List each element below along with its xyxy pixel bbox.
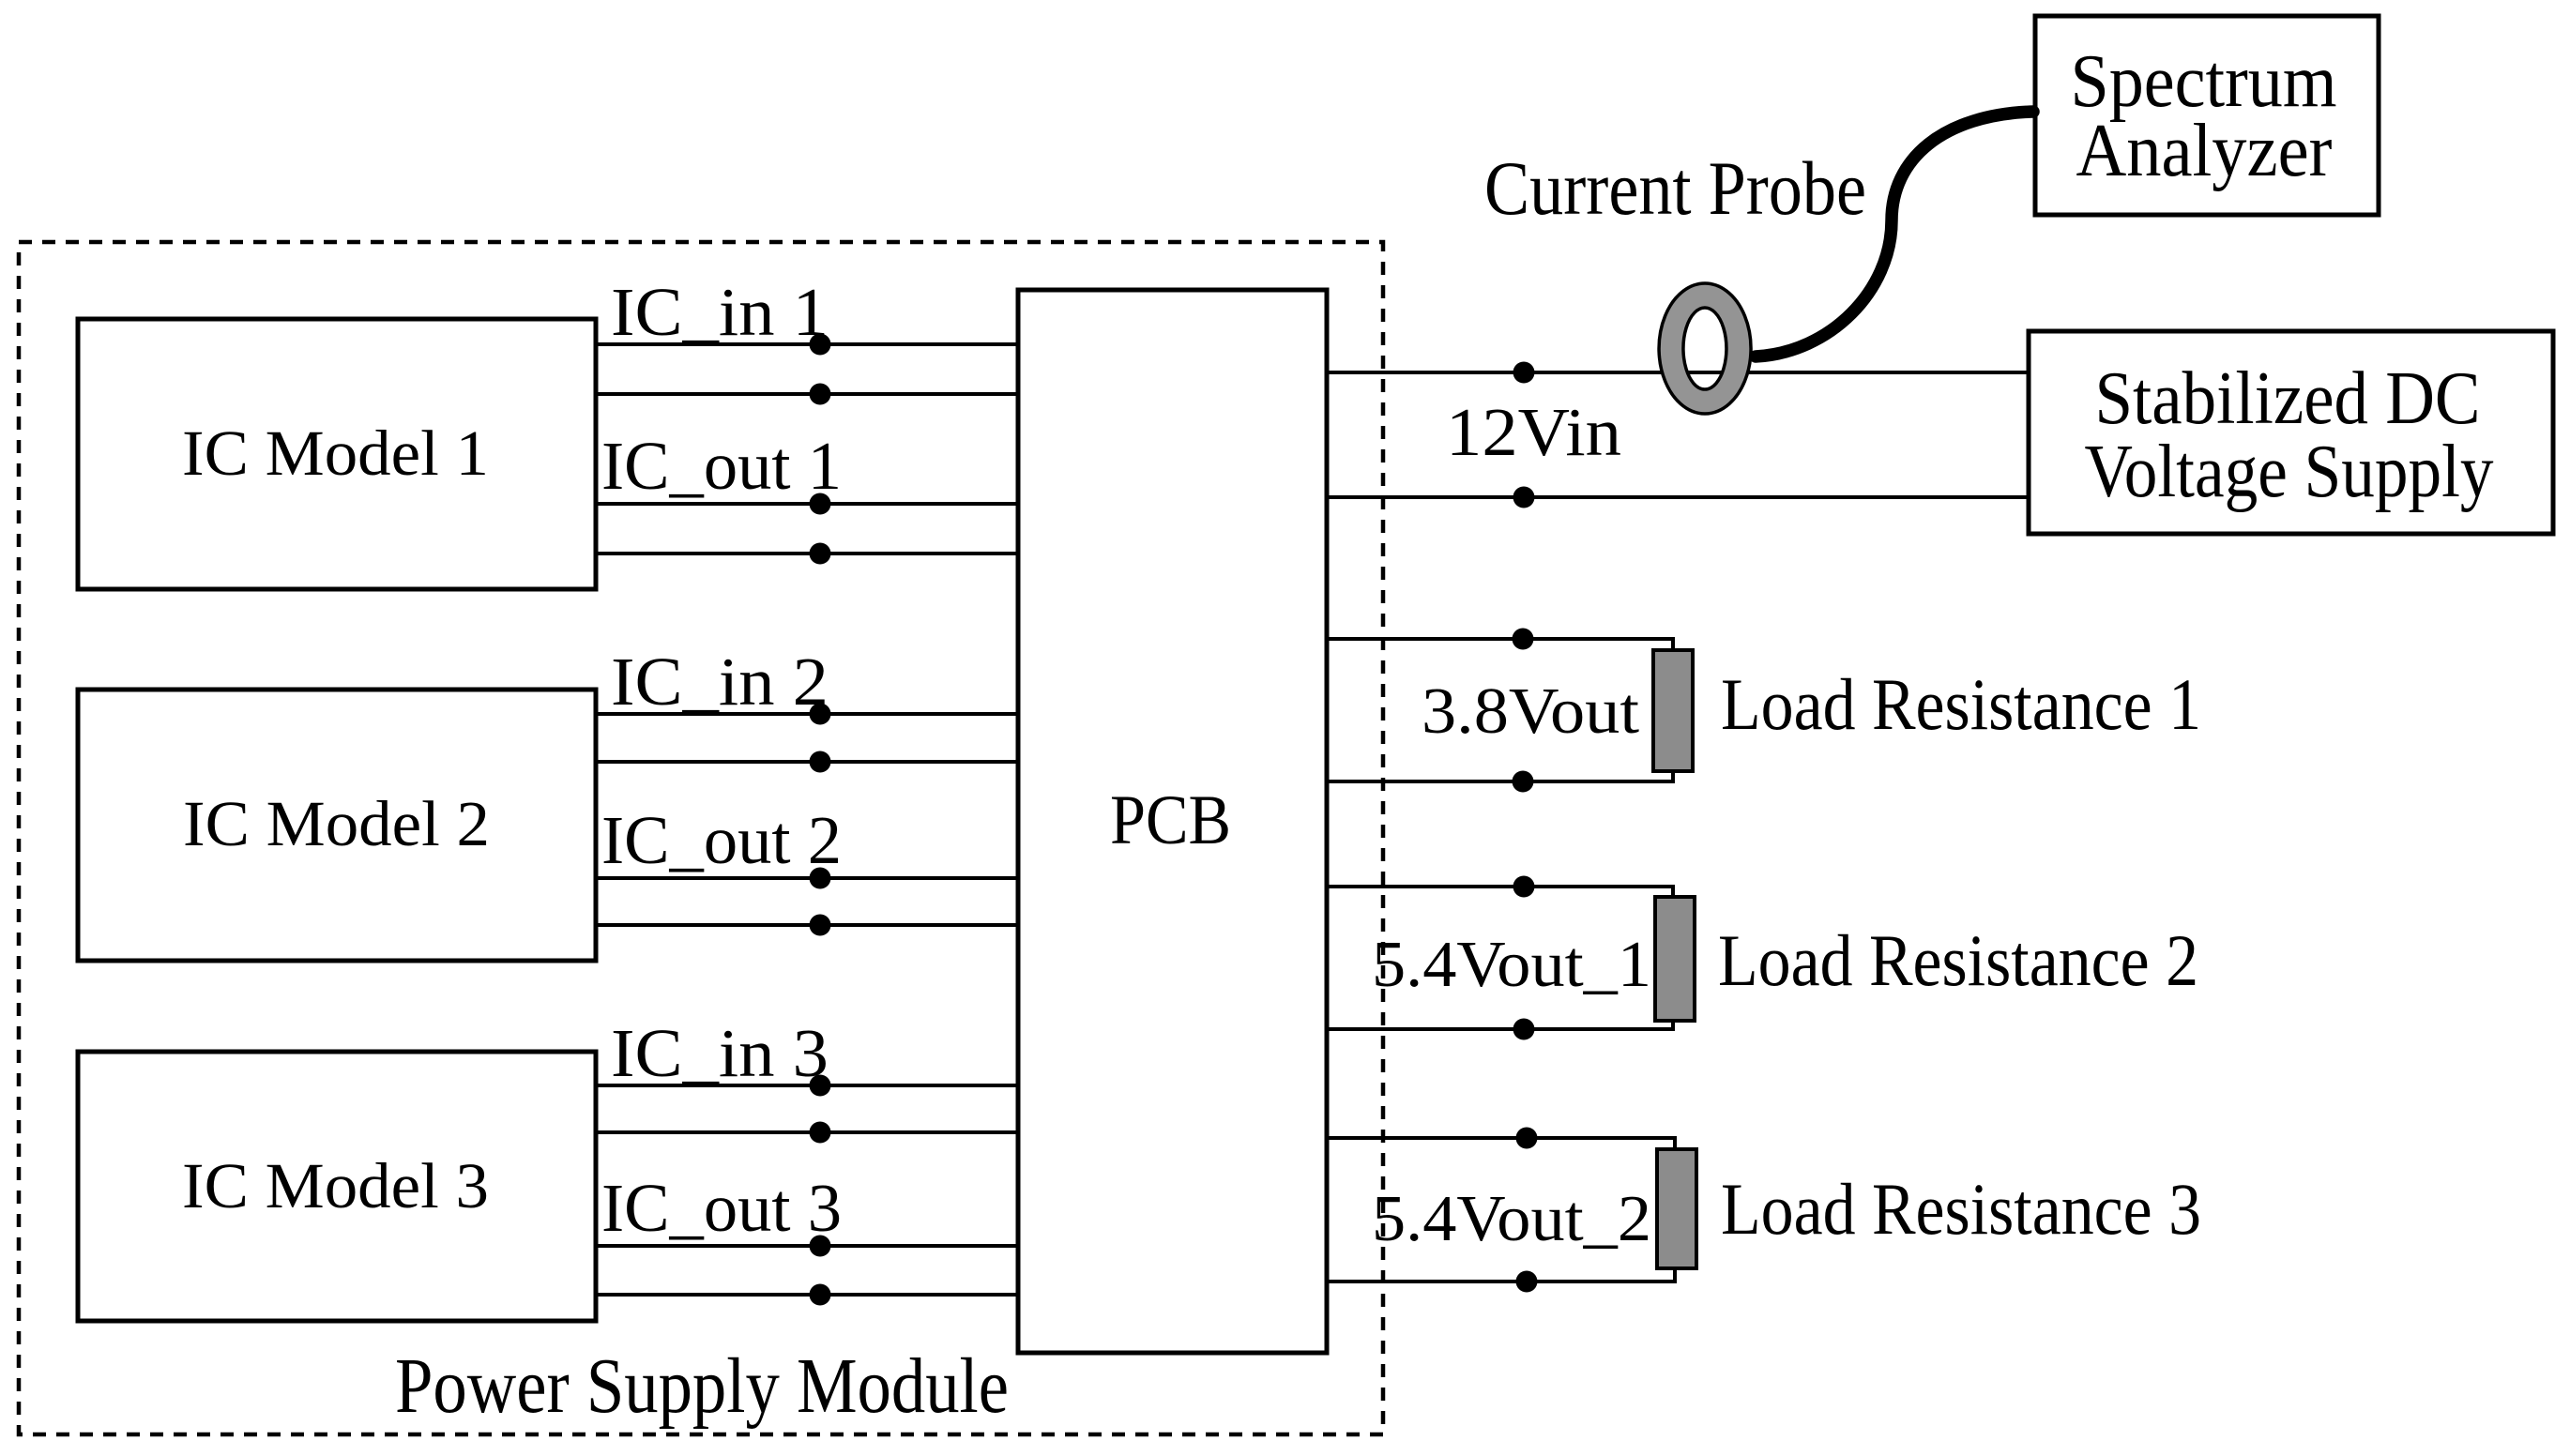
junction dot on 5.4Vout_1 bottom: [1513, 1019, 1535, 1040]
junction dot on wire IC3-PCB 3: [810, 1236, 831, 1257]
block: IC Model 3: [78, 1052, 596, 1321]
svg-text:Load Resistance 1: Load Resistance 1: [1721, 663, 2201, 745]
svg-text:IC Model 1: IC Model 1: [182, 417, 489, 489]
resistor: Load Resistance 3: [1657, 1149, 1696, 1268]
net label: IC_out 2: [601, 802, 842, 878]
wire IC2-PCB 1: [596, 712, 1020, 716]
wire IC1-PCB 2: [596, 392, 1020, 396]
svg-text:3.8Vout: 3.8Vout: [1422, 675, 1640, 748]
junction dot on wire IC2-PCB 1: [810, 704, 831, 725]
label: Load Resistance 1: [1721, 663, 2201, 745]
svg-text:Load Resistance 3: Load Resistance 3: [1721, 1168, 2201, 1250]
junction dot on wire IC2-PCB 3: [810, 868, 831, 889]
label: Power Supply Module: [395, 1342, 1009, 1430]
wire IC3-PCB 1: [596, 1084, 1020, 1087]
junction dot on wire IC3-PCB 2: [810, 1122, 831, 1144]
junction dot on wire IC1-PCB 4: [810, 543, 831, 565]
svg-text:12Vin: 12Vin: [1446, 394, 1621, 470]
block: Spectrum Analyzer: [2035, 16, 2379, 215]
svg-text:IC_out 1: IC_out 1: [601, 428, 842, 504]
net label: 3.8Vout: [1422, 675, 1640, 748]
wire IC3-PCB 4: [596, 1293, 1020, 1297]
wire 12Vin return (PCB to DC supply): [1325, 495, 2030, 499]
net label: IC_out 3: [601, 1170, 842, 1246]
wire 5.4Vout_2 bottom (load 3 to PCB): [1325, 1266, 1675, 1282]
junction dot on 5.4Vout_2 bottom: [1516, 1271, 1538, 1293]
svg-text:5.4Vout_1: 5.4Vout_1: [1372, 929, 1651, 1001]
wire IC2-PCB 2: [596, 760, 1020, 764]
resistor: Load Resistance 1: [1653, 650, 1693, 771]
junction dot on 3.8Vout bottom: [1513, 771, 1534, 793]
resistor: Load Resistance 2: [1655, 897, 1695, 1021]
net label: IC_in 3: [611, 1015, 829, 1091]
junction dot on wire IC2-PCB 2: [810, 751, 831, 773]
label: Load Resistance 2: [1718, 919, 2198, 1001]
net label: 5.4Vout_1: [1372, 929, 1651, 1001]
wire IC3-PCB 3: [596, 1244, 1020, 1248]
svg-text:IC_in 2: IC_in 2: [611, 644, 829, 720]
net label: IC_out 1: [601, 428, 842, 504]
wire 3.8Vout top (PCB to load 1): [1325, 639, 1673, 652]
net label: IC_in 1: [611, 274, 829, 350]
block: PCB: [1018, 290, 1327, 1353]
svg-text:IC_out 3: IC_out 3: [601, 1170, 842, 1246]
label: Current Probe: [1484, 145, 1866, 231]
wire 3.8Vout bottom (load 1 to PCB): [1325, 769, 1673, 781]
svg-text:IC_out 2: IC_out 2: [601, 802, 842, 878]
junction dot on wire IC1-PCB 3: [810, 493, 831, 515]
junction dot on 12Vin return: [1513, 487, 1535, 508]
wire IC1-PCB 4: [596, 552, 1020, 555]
probe cable to spectrum analyzer: [1756, 112, 2033, 356]
block: IC Model 1: [78, 319, 596, 589]
junction dot on wire IC3-PCB 1: [810, 1075, 831, 1097]
svg-text:IC_in 1: IC_in 1: [611, 274, 829, 350]
junction dot on 3.8Vout top: [1513, 629, 1534, 650]
junction dot on wire IC3-PCB 4: [810, 1284, 831, 1306]
current probe toroid: [1659, 283, 1751, 414]
junction dot on wire IC2-PCB 4: [810, 915, 831, 936]
block: IC Model 2: [78, 690, 596, 961]
svg-text:PCB: PCB: [1110, 781, 1231, 859]
wire IC3-PCB 2: [596, 1130, 1020, 1134]
wire IC2-PCB 4: [596, 923, 1020, 927]
svg-text:IC_in 3: IC_in 3: [611, 1015, 829, 1091]
wire 5.4Vout_1 top (PCB to load 2): [1325, 887, 1673, 899]
svg-text:Voltage Supply: Voltage Supply: [2085, 431, 2494, 513]
svg-text:5.4Vout_2: 5.4Vout_2: [1372, 1183, 1651, 1255]
svg-text:IC Model 2: IC Model 2: [183, 788, 490, 859]
wire 5.4Vout_1 bottom (load 2 to PCB): [1325, 1019, 1673, 1029]
junction dot on wire IC1-PCB 2: [810, 384, 831, 405]
label: Load Resistance 3: [1721, 1168, 2201, 1250]
svg-text:Stabilized DC: Stabilized DC: [2095, 357, 2481, 440]
junction dot on wire IC1-PCB 1: [810, 334, 831, 356]
wire IC1-PCB 1: [596, 342, 1020, 346]
svg-text:Analyzer: Analyzer: [2076, 110, 2333, 192]
junction dot on 5.4Vout_1 top: [1513, 876, 1535, 898]
enclosure: Power Supply Module dashed border: [19, 242, 1383, 1434]
wire IC1-PCB 3: [596, 502, 1020, 506]
wire IC2-PCB 3: [596, 876, 1020, 880]
block: Stabilized DC Voltage Supply: [2029, 331, 2553, 534]
net label: 5.4Vout_2: [1372, 1183, 1651, 1255]
svg-text:Current Probe: Current Probe: [1484, 145, 1866, 231]
net label: IC_in 2: [611, 644, 829, 720]
wire 5.4Vout_2 top (PCB to load 3): [1325, 1138, 1675, 1151]
svg-text:Load Resistance 2: Load Resistance 2: [1718, 919, 2198, 1001]
svg-text:IC Model 3: IC Model 3: [182, 1150, 489, 1221]
junction dot on 12Vin positive: [1513, 362, 1535, 384]
svg-text:Power Supply Module: Power Supply Module: [395, 1342, 1009, 1430]
junction dot on 5.4Vout_2 top: [1516, 1128, 1538, 1149]
net label: 12Vin: [1446, 394, 1621, 470]
wire 12Vin positive (PCB to DC supply): [1325, 371, 2030, 374]
